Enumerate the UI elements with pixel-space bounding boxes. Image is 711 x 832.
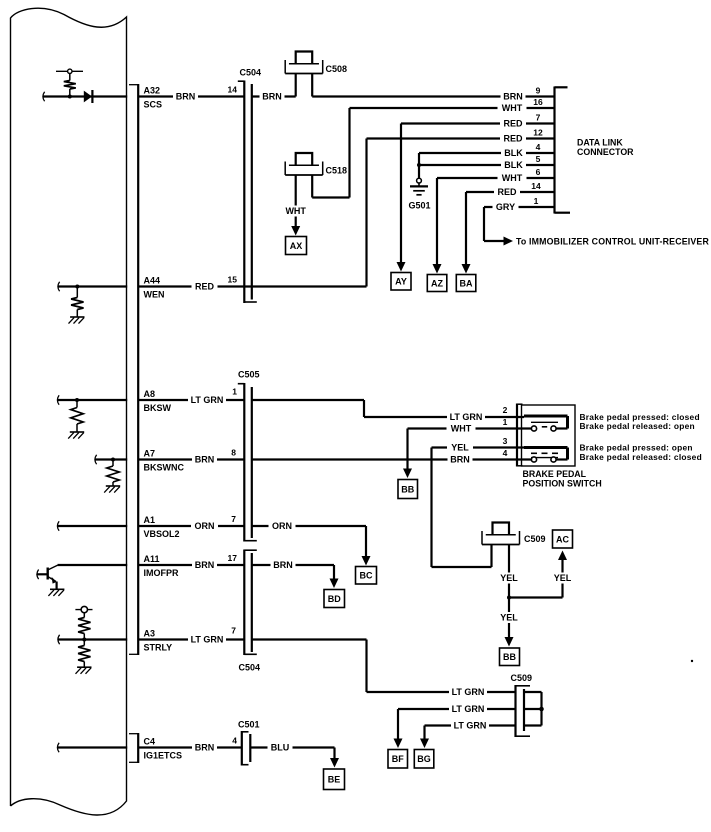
wire RED riser to DLC pin 12 (365, 139, 367, 287)
wire WHT DLC pin 6 (437, 177, 555, 179)
label BRN (A11 right) (271, 560, 296, 571)
svg-text:RED: RED (503, 119, 523, 129)
connector bracket for pin C4 (137, 733, 139, 763)
svg-text:RED: RED (195, 282, 215, 292)
label WHT (DLC pin 6) (498, 173, 527, 184)
svg-text:7: 7 (231, 626, 236, 636)
label LT GRN (C509 second) (449, 704, 487, 715)
svg-text:BRN: BRN (195, 560, 215, 570)
connector C509 (lower) (514, 685, 516, 737)
svg-text:C508: C508 (326, 64, 348, 74)
label LT GRN (A3) (188, 634, 226, 645)
svg-text:BC: BC (360, 571, 373, 581)
svg-text:YEL: YEL (451, 443, 469, 453)
label BRN (DLC pin 9) (501, 91, 526, 102)
connector C504 (bottom, pins 17/7) (243, 550, 245, 656)
svg-text:BRN: BRN (195, 743, 215, 753)
svg-text:YEL: YEL (500, 613, 518, 623)
svg-text:AY: AY (395, 277, 407, 287)
wire LT GRN drop and run to C509 (365, 640, 367, 693)
svg-text:DATA LINK: DATA LINK (577, 138, 623, 148)
svg-text:ORN: ORN (272, 521, 292, 531)
svg-text:3: 3 (503, 436, 508, 446)
connector C518 (in-line) (296, 153, 313, 165)
label RED (DLC pin 14) (494, 187, 520, 198)
wire A8 internal (58, 399, 128, 401)
label RED (DLC pin 12) (500, 133, 526, 144)
wire YEL junction to BB (508, 598, 510, 638)
label BRN (C4) (192, 742, 217, 753)
wire YEL C509 to junction (508, 545, 510, 598)
terminal box AC (553, 530, 573, 548)
wire A1 ORN to BC (139, 525, 244, 527)
ground symbol at A11 emitter (50, 588, 64, 590)
svg-text:12: 12 (533, 128, 543, 138)
arrow into AX (291, 226, 300, 236)
wire A11 internal (58, 564, 128, 566)
wire RED drop to AY (400, 124, 402, 263)
svg-text:17: 17 (228, 553, 238, 563)
terminal box BG (414, 750, 434, 769)
svg-text:7: 7 (231, 514, 236, 524)
svg-text:7: 7 (536, 113, 541, 123)
svg-text:BB: BB (401, 484, 414, 494)
svg-text:Brake pedal released: open: Brake pedal released: open (580, 421, 695, 431)
svg-text:Brake pedal released: closed: Brake pedal released: closed (580, 452, 702, 462)
label YEL (to AC) (550, 573, 576, 584)
wire RED DLC pin 14 (466, 191, 555, 193)
label BRN (switch pin 4) (448, 454, 473, 465)
wire C4 internal (58, 746, 128, 748)
svg-text:LT GRN: LT GRN (454, 721, 487, 731)
wire YEL switch pin3 run to C509 upper (432, 566, 492, 568)
svg-text:C504: C504 (239, 663, 261, 673)
connector C509 (upper, in-line) (493, 523, 510, 535)
ground symbol at A7 (106, 485, 120, 487)
terminal box BB (switch) (398, 480, 418, 499)
wire BLK DLC pin 5 (419, 164, 555, 166)
svg-text:RED: RED (503, 134, 523, 144)
terminal box BC (356, 567, 377, 585)
svg-text:IG1ETCS: IG1ETCS (144, 750, 183, 760)
label WHT (switch pin 1) (447, 423, 476, 434)
svg-text:POSITION SWITCH: POSITION SWITCH (523, 478, 602, 488)
svg-text:C509: C509 (524, 534, 546, 544)
internal resistor to ground at A7 (112, 460, 114, 467)
svg-text:BE: BE (328, 775, 341, 785)
terminal box AY (391, 273, 411, 291)
svg-text:16: 16 (533, 97, 543, 107)
terminal box AZ (427, 275, 447, 292)
diode D on A32 wire (84, 91, 92, 103)
wire A11 BRN to BD (139, 564, 244, 566)
wire LT GRN second to C509 (398, 708, 516, 710)
svg-text:6: 6 (536, 167, 541, 177)
svg-text:BB: BB (503, 652, 516, 662)
wire C518 right leg down (311, 175, 313, 198)
label YEL (below C509) (496, 573, 522, 584)
connector C508 (in-line) (296, 52, 313, 64)
label RED (DLC pin 7) (500, 118, 526, 129)
wire C518 left leg to AX (295, 175, 297, 226)
junction dot on A7 wire (111, 458, 115, 462)
svg-text:BRN: BRN (503, 92, 523, 102)
connector C501 (pin 4) (241, 731, 243, 766)
svg-text:BLK: BLK (504, 160, 523, 170)
svg-text:C501: C501 (238, 720, 260, 730)
arrow into BD (330, 579, 339, 589)
wire YEL junction to AC (509, 596, 563, 598)
arrow into BA (462, 264, 471, 274)
label BRN (A32 right) (260, 91, 285, 102)
junction dot on A8 wire (75, 398, 79, 402)
label LT GRN (C509 third) (451, 720, 489, 731)
svg-text:BRN: BRN (176, 92, 196, 102)
svg-text:RED: RED (497, 187, 517, 197)
junction dot on C509 jumper (539, 707, 544, 712)
arrow into AZ (433, 264, 442, 274)
wire BRN C504 to C508 (252, 95, 296, 97)
svg-text:BRN: BRN (450, 455, 470, 465)
svg-text:A44: A44 (144, 276, 161, 286)
svg-text:C509: C509 (511, 673, 533, 683)
wire C509 right-side jumper bus (524, 691, 542, 693)
wire A32 BRN to C504 (139, 95, 244, 97)
svg-text:A1: A1 (144, 515, 156, 525)
svg-text:4: 4 (536, 142, 541, 152)
connector C504 (top, pins 14/15) (243, 81, 245, 304)
svg-text:LT GRN: LT GRN (450, 412, 483, 422)
junction dot YEL node (507, 596, 511, 600)
label LT GRN (switch pin 2) (447, 412, 485, 423)
label WHT (DLC pin 16) (498, 103, 527, 114)
svg-text:4: 4 (503, 448, 508, 458)
label YEL (to BB) (496, 612, 522, 623)
svg-text:IMOFPR: IMOFPR (144, 568, 179, 578)
internal resistor to ground at A8 (76, 400, 78, 408)
brake pedal position switch connector bracket (516, 404, 518, 467)
svg-text:C518: C518 (326, 166, 348, 176)
svg-text:WHT: WHT (502, 173, 523, 183)
svg-text:VBSOL2: VBSOL2 (144, 529, 180, 539)
svg-text:AC: AC (556, 534, 569, 544)
wire A7 BRN to switch pin 4 (139, 458, 244, 460)
label ORN (right) (269, 521, 296, 532)
wire A3 LT GRN to corner (139, 638, 244, 640)
svg-text:AZ: AZ (431, 278, 443, 288)
svg-text:To IMMOBILIZER CONTROL UNIT-RE: To IMMOBILIZER CONTROL UNIT-RECEIVER (516, 236, 709, 246)
terminal box BD (324, 590, 345, 608)
internal resistor divider at A3 (75, 609, 92, 611)
svg-text:LT GRN: LT GRN (191, 395, 224, 405)
DATA LINK CONNECTOR bracket (553, 87, 555, 214)
svg-text:A7: A7 (144, 449, 156, 459)
svg-text:YEL: YEL (500, 573, 518, 583)
label WHT (to AX) (281, 206, 310, 217)
wire WHT DLC pin 16 from C518 (348, 108, 350, 198)
transistor Q driver at A11 (38, 573, 48, 575)
switch element bottom (released closed) (524, 446, 568, 449)
svg-text:BRAKE PEDAL: BRAKE PEDAL (523, 469, 587, 479)
speck (691, 660, 693, 662)
arrow into AC (558, 551, 567, 561)
junction dot on A44 wire (75, 285, 79, 289)
arrow into AY (397, 262, 406, 272)
svg-text:BKSW: BKSW (144, 403, 172, 413)
wire LT GRN third to C509 (425, 724, 516, 726)
arrow into BB (switch) (403, 469, 412, 479)
svg-text:A32: A32 (144, 86, 161, 96)
label GRY (DLC pin 1) (493, 202, 519, 213)
terminal box BA (456, 275, 476, 292)
wire A7 internal (95, 458, 127, 460)
internal pull-up resistor and supply node at A32 (56, 70, 83, 72)
svg-text:A11: A11 (144, 554, 160, 564)
wire A8 LT GRN to switch pin 2 (139, 399, 244, 401)
svg-text:STRLY: STRLY (144, 642, 173, 652)
svg-text:14: 14 (531, 181, 541, 191)
svg-text:G501: G501 (408, 201, 430, 211)
terminal box AX (286, 237, 307, 255)
svg-text:BRN: BRN (195, 455, 215, 465)
wire RED DLC pin 7 (401, 122, 555, 124)
junction dot BLK pins 4-5 (417, 163, 421, 167)
arrow into BC (362, 556, 371, 566)
wire BLK drop to ground (418, 153, 420, 178)
wire GRY DLC pin 1 (484, 206, 555, 208)
label LT GRN (C509 first) (449, 687, 487, 698)
label BRN (A11) (192, 560, 217, 571)
svg-text:WHT: WHT (502, 103, 523, 113)
svg-text:2: 2 (503, 405, 508, 415)
ground symbol at A8 (70, 431, 84, 433)
svg-text:C4: C4 (144, 737, 156, 747)
label RED (A44) (192, 281, 218, 292)
label YEL (switch pin 3) (447, 442, 473, 453)
svg-text:BG: BG (417, 754, 431, 764)
label BLK (DLC pin 4) (501, 148, 526, 159)
svg-text:A8: A8 (144, 389, 156, 399)
svg-text:BKSWNC: BKSWNC (144, 462, 185, 472)
terminal box BB (lower) (500, 648, 520, 666)
internal resistor to ground at A44 (76, 287, 78, 298)
svg-text:BLK: BLK (504, 148, 523, 158)
label LT GRN (A8) (188, 395, 226, 406)
ground symbol at A44 (70, 316, 84, 318)
svg-text:LT GRN: LT GRN (191, 635, 224, 645)
wire A32 internal (43, 95, 127, 97)
svg-text:14: 14 (228, 85, 238, 95)
svg-text:A3: A3 (144, 629, 156, 639)
arrow into BF (394, 739, 403, 749)
connector C505 (pins 1/8/7) (243, 383, 245, 542)
svg-text:AX: AX (290, 241, 303, 251)
wire A3 internal (58, 638, 127, 640)
label BRN (A7) (192, 454, 217, 465)
arrow into BB (lower) (505, 637, 514, 647)
connector bracket for pins A32-A3 (137, 84, 139, 655)
svg-text:CONNECTOR: CONNECTOR (577, 147, 634, 157)
svg-text:BD: BD (328, 594, 341, 604)
svg-text:GRY: GRY (496, 202, 515, 212)
svg-text:BRN: BRN (262, 92, 282, 102)
svg-text:LT GRN: LT GRN (452, 704, 485, 714)
svg-text:8: 8 (231, 448, 236, 458)
svg-text:1: 1 (232, 387, 237, 397)
ECU control-module block outline (torn-edge) (11, 8, 127, 815)
svg-text:WHT: WHT (285, 206, 306, 216)
brake pedal position switch body (522, 405, 576, 466)
terminal box BE (324, 769, 345, 790)
svg-text:YEL: YEL (554, 573, 572, 583)
arrow into BE (330, 758, 339, 768)
wire BLU C501 to BE (250, 746, 334, 748)
svg-text:WHT: WHT (451, 424, 472, 434)
wire BLK DLC pin 4 (419, 152, 555, 154)
arrow to immobilizer unit (504, 237, 514, 246)
wire A1 internal (58, 525, 128, 527)
wire C4 BRN to C501 (139, 746, 242, 748)
svg-text:BA: BA (460, 278, 473, 288)
svg-text:SCS: SCS (144, 99, 163, 109)
wire A44 RED to corner (139, 285, 367, 287)
junction dot on A32 wire (68, 95, 72, 99)
svg-text:15: 15 (228, 275, 238, 285)
svg-text:ORN: ORN (195, 521, 215, 531)
svg-text:9: 9 (536, 86, 541, 96)
switch element top (pressed closed) (524, 415, 568, 418)
svg-text:BF: BF (392, 754, 404, 764)
wire A44 internal (58, 285, 127, 287)
ground symbol at A3 (77, 666, 91, 668)
svg-text:WEN: WEN (144, 289, 165, 299)
svg-text:5: 5 (536, 154, 541, 164)
svg-text:C505: C505 (238, 370, 260, 380)
svg-text:1: 1 (503, 417, 508, 427)
label ORN (A1) (191, 521, 218, 532)
arrow into BG (420, 739, 429, 749)
wire WHT switch pin 1 to BB (408, 427, 532, 429)
svg-text:1: 1 (534, 196, 539, 206)
junction dot on A3 wire (82, 638, 86, 642)
svg-text:BRN: BRN (273, 560, 293, 570)
svg-text:LT GRN: LT GRN (452, 687, 485, 697)
label BLK (DLC pin 5) (501, 160, 526, 171)
wire BRN C508 to DLC pin 9 (311, 74, 313, 97)
ground G501 (417, 178, 422, 183)
svg-text:C504: C504 (240, 68, 262, 78)
label BRN (A32 left) (173, 91, 198, 102)
wire YEL switch pin 3 (432, 446, 525, 448)
label BLU (C4) (268, 742, 293, 753)
internal lower resistor to ground at A3 (78, 646, 90, 662)
svg-text:BLU: BLU (271, 743, 290, 753)
terminal box BF (388, 750, 408, 769)
svg-text:4: 4 (232, 736, 237, 746)
